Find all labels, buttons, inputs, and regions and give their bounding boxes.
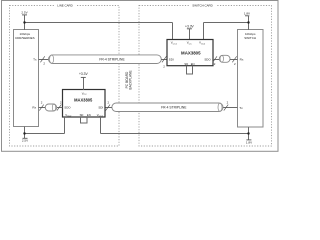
wire short trace to Rx serdes xyxy=(39,107,46,109)
outer frame xyxy=(2,1,279,152)
node diff pair slash 2 xyxy=(224,100,229,110)
wire SDO U1 to short line xyxy=(57,107,63,109)
power 2.5V bottom-left xyxy=(22,127,28,143)
label SWITCH CARD xyxy=(189,3,216,8)
svg-text:SWITCH CARD: SWITCH CARD xyxy=(192,4,212,8)
node junction bottom 2.5V xyxy=(23,132,25,134)
wire VCC1 stub U1 xyxy=(100,117,102,134)
svg-text:FR-4 STRIPLINE: FR-4 STRIPLINE xyxy=(99,57,125,61)
svg-text:FR-4 STRIPLINE: FR-4 STRIPLINE xyxy=(161,105,187,109)
wire 1.8V rail to VCC1 of U1 xyxy=(101,133,249,135)
transmission line FR-4 stripline bottom xyxy=(112,103,223,112)
wire SD-EN link U1 xyxy=(81,117,88,123)
transmission line FR-4 stripline top xyxy=(49,55,162,64)
wire short trace to Rx switch xyxy=(230,59,238,61)
svg-text:Tx: Tx xyxy=(33,57,37,61)
node diff pair slash 2 xyxy=(213,56,217,66)
wire 2.5V rail to VCC2 of U1 xyxy=(25,133,65,135)
svg-text:EN: EN xyxy=(87,113,91,117)
line card dashed box xyxy=(10,6,120,147)
svg-text:SWITCH: SWITCH xyxy=(244,36,256,40)
label LINE CARD xyxy=(54,3,76,8)
node junction bottom 1.8V xyxy=(247,132,249,134)
transmission line short trace line card xyxy=(45,104,57,111)
wire SD-EN link U2 xyxy=(187,66,193,74)
svg-text:LINE CARD: LINE CARD xyxy=(57,4,72,8)
node PC BOARD BACKPLANE xyxy=(125,70,133,89)
op-amp U1 MAX3805 (line card equalizer) xyxy=(63,90,106,118)
wire switch Tx to stripline xyxy=(223,107,238,109)
node junction 1.8V xyxy=(247,21,249,23)
svg-text:MAX3805: MAX3805 xyxy=(181,51,201,56)
wire Tx to stripline xyxy=(39,59,50,61)
svg-text:Tx: Tx xyxy=(239,106,243,110)
wire VCC1 riser U2 xyxy=(172,23,174,41)
box 10Gbps SWITCH xyxy=(238,30,264,128)
svg-text:BACKPLANE: BACKPLANE xyxy=(129,70,133,89)
wire 2.5V rail to VCC1 of U2 xyxy=(25,22,173,24)
svg-text:1.8V: 1.8V xyxy=(244,12,250,16)
svg-text:MAX3805: MAX3805 xyxy=(74,98,93,103)
node diff pair slash 2 xyxy=(162,56,166,68)
svg-text:SDO: SDO xyxy=(204,57,211,61)
svg-text:SDI: SDI xyxy=(169,57,174,61)
node diff pair slash 2 xyxy=(232,56,236,66)
svg-text:Rx: Rx xyxy=(32,106,36,110)
transmission line short trace switch card xyxy=(219,55,230,62)
node diff pair slash 2 xyxy=(40,56,45,65)
svg-text:SDO: SDO xyxy=(64,106,71,110)
node junction 2.5V xyxy=(23,21,25,23)
switch card dashed box xyxy=(139,6,272,147)
svg-text:CDR/SERDES: CDR/SERDES xyxy=(15,36,35,40)
power 2.5V top-left xyxy=(21,11,27,30)
svg-text:+3.3V: +3.3V xyxy=(79,72,89,76)
svg-text:+3.3V: +3.3V xyxy=(185,25,195,29)
box 10Gbps CDR/SERDES xyxy=(14,30,39,127)
svg-text:SD: SD xyxy=(184,62,188,66)
op-amp U2 MAX3805 (switch card equalizer) xyxy=(167,40,213,66)
svg-text:2.5V: 2.5V xyxy=(22,139,28,143)
svg-text:2.5V: 2.5V xyxy=(21,11,27,15)
node diff pair slash 2 xyxy=(57,100,62,110)
wire stripline to SDI U1 xyxy=(105,107,112,109)
power +3.3V for U2 xyxy=(185,25,195,40)
svg-text:Rx: Rx xyxy=(240,57,244,61)
wire stripline to SDI U2 xyxy=(161,59,167,61)
wire 1.8V rail to VCC2 of U2 xyxy=(204,22,249,24)
node diff pair slash 2 xyxy=(39,100,43,110)
wire SDO U2 to short line xyxy=(213,59,220,61)
wire VCC2 stub U1 xyxy=(64,117,66,134)
svg-text:SDI: SDI xyxy=(98,106,103,110)
wire VCC2 riser U2 xyxy=(203,23,205,41)
svg-text:SD: SD xyxy=(80,113,84,117)
power 1.8V top-right xyxy=(244,12,250,30)
power 1.8V bottom-right xyxy=(246,127,252,145)
svg-text:EN: EN xyxy=(191,62,195,66)
power +3.3V for U1 xyxy=(79,72,89,90)
svg-text:1.8V: 1.8V xyxy=(246,141,252,145)
node diff pair slash 2 xyxy=(106,100,110,110)
